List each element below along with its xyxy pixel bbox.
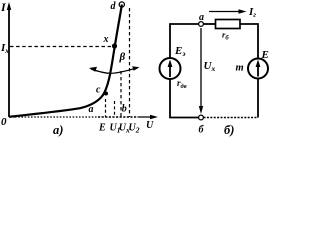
svg-text:E: E [261,49,269,61]
y-axis I [7,2,11,117]
resistor r_b [216,20,241,29]
point x marker [112,43,117,48]
svg-text:b: b [122,104,127,115]
point d marker [119,2,124,7]
svg-text:m: m [236,63,244,74]
wire bottom rail dotted [204,117,259,119]
source E_e (left) [160,58,181,79]
current arrow I_g [209,9,247,13]
svg-text:0: 0 [1,116,7,128]
voltage arrow U_x [199,28,203,114]
svg-text:c: c [96,85,101,96]
wire right rail bottom [257,79,259,118]
wire left rail bottom [170,79,199,118]
x-axis U [9,115,158,119]
svg-text:E: E [98,123,106,134]
wire resistor to right corner and down [240,24,258,58]
svg-text:а): а) [53,123,63,137]
beta angle arrow through curve [89,66,140,73]
characteristic curve [9,5,122,117]
wire node a to resistor [204,23,216,25]
node a [199,22,204,27]
source E (right) [248,59,268,79]
dashed vertical at Ux [120,71,122,117]
svg-text:x: x [103,34,109,45]
point c marker [104,92,108,96]
dashed vertical at U2 [129,8,131,117]
node b [199,115,204,120]
dashed vertical at U1 [114,101,116,117]
dashed horizontal Ix line [10,46,111,48]
svg-text:б): б) [224,123,234,137]
wire top-left rail [170,24,199,58]
svg-text:β: β [119,51,126,63]
dashed vertical at E [105,99,107,117]
svg-text:U: U [146,120,154,131]
svg-text:a: a [199,12,204,23]
svg-text:a: a [89,104,94,115]
